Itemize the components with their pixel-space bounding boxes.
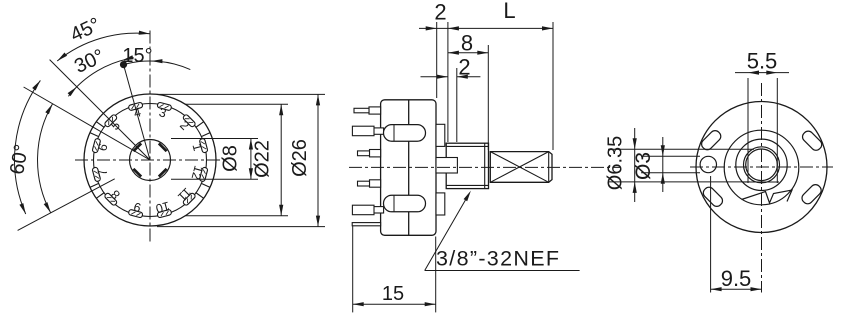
shaft — [490, 152, 552, 183]
shaft hole circle — [744, 147, 780, 183]
anti-rotation tab — [436, 158, 457, 174]
shaft chamfer marks — [133, 143, 166, 176]
dim Ø6.35 — [608, 128, 754, 202]
boss lower — [436, 193, 445, 215]
terminals — [352, 107, 425, 226]
dim Ø3 — [641, 155, 700, 157]
lug B — [372, 128, 384, 134]
outer circle body Ø26 — [84, 94, 216, 226]
dim 5.5 — [735, 71, 789, 184]
svg-text:15: 15 — [382, 283, 404, 305]
pill E inside body — [384, 195, 426, 212]
indicator radial with dot (15 deg) — [18, 60, 150, 231]
position numbers 1-12 — [95, 105, 205, 215]
pin F — [352, 223, 380, 226]
radial at 60 deg — [24, 87, 150, 160]
ext lines — [436, 22, 438, 98]
pill B inside body — [384, 125, 426, 142]
shaft flat — [742, 181, 779, 183]
dim 2 (panel) + L — [419, 27, 448, 29]
svg-text:Ø26: Ø26 — [289, 139, 311, 177]
45 deg arc — [57, 33, 150, 61]
centerline horizontal — [75, 159, 227, 161]
bushing — [446, 143, 488, 188]
dim 15 — [353, 226, 436, 312]
svg-text:2: 2 — [458, 55, 470, 80]
lug E — [372, 207, 384, 213]
body division — [408, 100, 410, 236]
svg-text:5.5: 5.5 — [747, 49, 778, 74]
outer circle — [696, 102, 827, 233]
right view: rear (bushing) view — [696, 102, 827, 233]
middle view: side elevation — [381, 100, 552, 236]
svg-text:Ø22: Ø22 — [252, 140, 274, 178]
pin A — [369, 107, 381, 114]
mounting ear ovals — [700, 129, 824, 209]
shaft circle Ø6.35 — [746, 149, 778, 181]
stop notches — [90, 122, 210, 199]
svg-text:15°: 15° — [122, 45, 152, 67]
dim 2 (thread relief) — [421, 76, 448, 78]
15 deg arc — [15, 31, 191, 214]
lug seat circle Ø22 — [94, 104, 207, 217]
dim Ø8 — [157, 94, 325, 226]
svg-text:9.5: 9.5 — [721, 266, 752, 291]
shaft hole Ø8 — [130, 140, 171, 181]
body — [381, 100, 436, 236]
label 45deg — [6, 14, 152, 177]
anti-rotation tab — [742, 190, 793, 203]
top dimensions — [419, 22, 553, 150]
svg-text:3/8”-32NEF: 3/8”-32NEF — [436, 247, 559, 271]
pin C — [370, 150, 381, 157]
shaft knurl X — [490, 152, 548, 183]
dim Ø26 — [157, 93, 325, 95]
right view centerline vertical — [761, 83, 763, 293]
svg-text:2: 2 — [434, 0, 446, 25]
centerline vertical — [149, 31, 151, 244]
radial at 45 deg — [50, 60, 150, 160]
middle view centerline — [349, 166, 620, 168]
60 deg arc inner — [38, 104, 53, 213]
dim 8 — [448, 52, 488, 54]
svg-text:Ø8: Ø8 — [220, 145, 242, 172]
svg-text:Ø6.35: Ø6.35 — [605, 136, 627, 190]
svg-text:L: L — [503, 0, 515, 23]
bushing circle — [736, 139, 787, 190]
30 deg arc — [68, 58, 133, 97]
boss upper — [436, 124, 445, 146]
60 deg arc outer — [15, 80, 41, 214]
left view: rotary switch front — [75, 31, 227, 244]
dim Ø22 — [185, 103, 288, 105]
svg-text:Ø3: Ø3 — [632, 152, 655, 180]
radial at 118 deg — [18, 179, 115, 231]
thread callout 3/8-32NEF — [425, 191, 580, 271]
pin D — [370, 180, 381, 187]
terminal lugs x12 — [92, 102, 208, 218]
flange circle — [724, 130, 799, 205]
svg-text:8: 8 — [461, 31, 473, 56]
locating hole Ø3 — [700, 156, 716, 172]
right view centerline horizontal — [690, 166, 833, 168]
dim 9.5 — [711, 176, 762, 293]
